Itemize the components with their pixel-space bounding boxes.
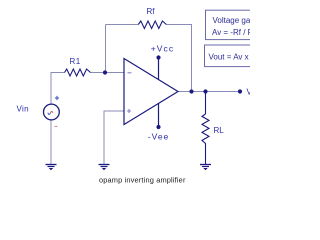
svg-text:Rf: Rf [147, 7, 156, 16]
source sine wave right half [50, 111, 53, 113]
svg-text:R1: R1 [70, 57, 81, 66]
ground under RL [200, 165, 211, 171]
source minus sign [55, 126, 58, 128]
source Vin [44, 104, 60, 120]
annotation box Vout formula [205, 45, 258, 67]
svg-text:Vin: Vin [17, 105, 29, 114]
ground under Vin source [46, 165, 57, 171]
svg-text:-Vee: -Vee [148, 131, 170, 141]
source plus sign [55, 96, 59, 100]
svg-text:RL: RL [214, 126, 225, 135]
svg-text:opamp inverting amplifier: opamp inverting amplifier [99, 175, 186, 184]
wire RL bottom stem [205, 146, 207, 165]
wire Vin to R1 [51, 73, 65, 105]
resistor Rf [138, 21, 166, 29]
op-amp non-inverting input sign [127, 109, 131, 113]
resistor RL [202, 114, 209, 146]
node Vout terminal dot [238, 89, 242, 93]
+Vcc terminal dot [156, 55, 160, 59]
op-amp U1 [124, 59, 178, 125]
wire Rf top left [106, 24, 139, 26]
wire Rf left leg [105, 25, 107, 73]
wire non-inverting input to ground [104, 111, 124, 165]
wire RL top stem [205, 92, 207, 115]
annotation box voltage gain [206, 10, 258, 39]
wire op-amp output to Vout [178, 91, 240, 93]
wire Rf top right and right leg [166, 25, 191, 92]
node junction RL/output [203, 89, 207, 93]
wire +Vcc stem [158, 58, 160, 80]
svg-text:Vout = Av x Vin: Vout = Av x Vin [209, 52, 251, 61]
op-amp inverting input sign [128, 72, 132, 74]
node junction R1/Rf [103, 70, 107, 74]
svg-text:Voltage gain: Voltage gain [213, 16, 251, 25]
svg-text:+Vcc: +Vcc [151, 44, 174, 54]
ground under op-amp non-inverting input [99, 165, 110, 171]
wire R1 to op-amp inverting input [91, 72, 125, 74]
node junction Rf/output [189, 89, 193, 93]
svg-text:Vout: Vout [247, 88, 251, 97]
wire Vin source to ground [50, 120, 52, 165]
wire -Vee stem [158, 103, 160, 127]
svg-text:Av = -Rf / R1: Av = -Rf / R1 [212, 28, 250, 37]
source sine wave left half [48, 113, 51, 115]
-Vee terminal dot [156, 125, 160, 129]
resistor R1 [65, 69, 91, 76]
